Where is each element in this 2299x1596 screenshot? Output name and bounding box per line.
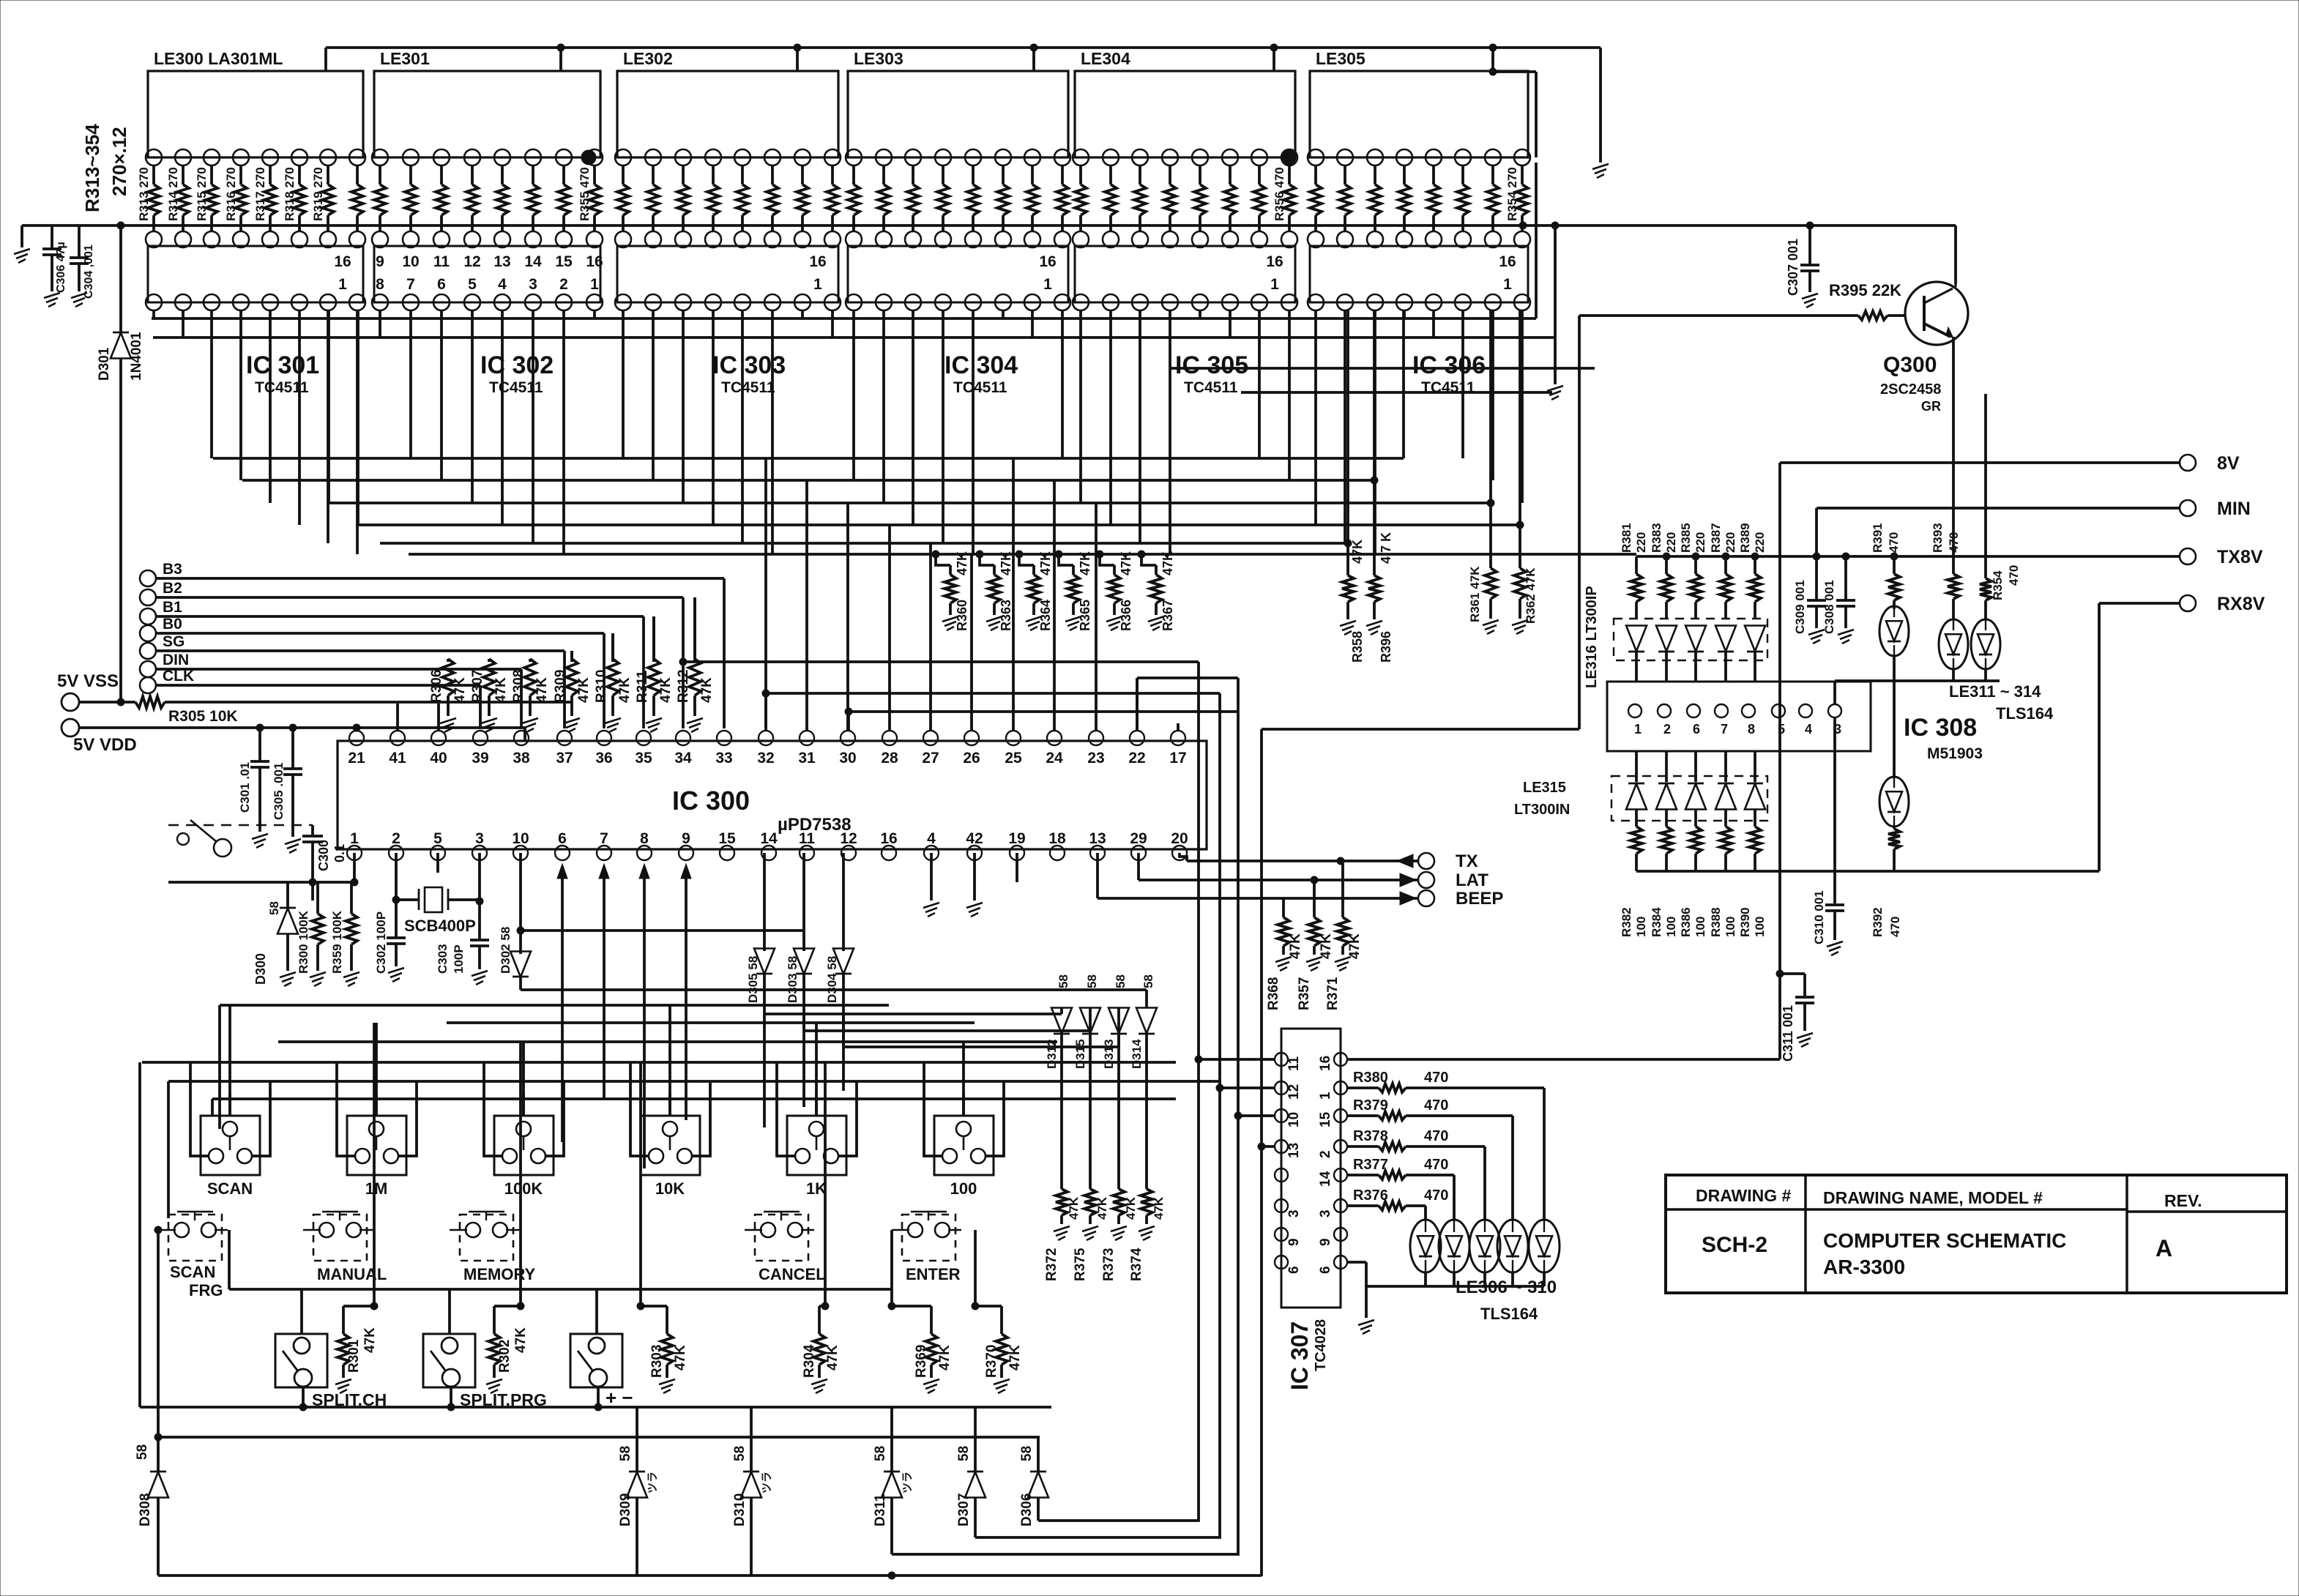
svg-text:28: 28 <box>881 750 898 767</box>
bottom pins IC301 <box>146 294 162 310</box>
svg-text:R367: R367 <box>1160 600 1175 631</box>
svg-text:IC 306: IC 306 <box>1412 351 1486 379</box>
LE315 diodes <box>1635 751 1638 782</box>
node LE305 feed <box>1491 48 1494 72</box>
capacitor C305 <box>289 724 297 731</box>
pin5 stub <box>436 853 439 873</box>
svg-text:2: 2 <box>559 276 568 293</box>
svg-text:47K: 47K <box>1347 933 1363 959</box>
resistor R array 2,1 <box>652 165 655 184</box>
svg-text:R301: R301 <box>346 1339 362 1373</box>
wires IC302 outputs <box>379 310 381 338</box>
svg-text:24: 24 <box>1046 750 1063 767</box>
svg-text:R373: R373 <box>1101 1248 1117 1281</box>
svg-text:47K: 47K <box>452 677 468 703</box>
svg-text:35: 35 <box>635 750 652 767</box>
svg-text:470: 470 <box>1424 1097 1448 1114</box>
wires IC306 outputs <box>1314 310 1317 525</box>
svg-text:C311 001: C311 001 <box>1781 1005 1795 1062</box>
LED display LE300 <box>148 71 363 157</box>
ground left edge <box>14 249 30 254</box>
svg-text:R377: R377 <box>1353 1157 1388 1173</box>
resistor R382 <box>1635 824 1638 827</box>
wire L4 <box>1260 729 1263 1576</box>
resistor R313 <box>152 165 155 184</box>
wire mesh row 0 <box>213 457 1404 460</box>
svg-text:1: 1 <box>1270 276 1279 293</box>
resistor R array 5,2 <box>1374 165 1376 184</box>
resistor R array 4,2 <box>1139 165 1141 184</box>
svg-text:R393: R393 <box>1931 523 1945 553</box>
svg-text:7: 7 <box>600 830 608 847</box>
wire ic307 pin6 <box>1347 1261 1366 1264</box>
diode D311 <box>890 1407 893 1472</box>
LED display LE304 <box>1075 71 1295 157</box>
switch + − <box>570 1334 622 1387</box>
svg-text:4: 4 <box>927 830 936 847</box>
svg-text:6: 6 <box>1318 1266 1333 1274</box>
svg-text:14: 14 <box>760 830 778 847</box>
wire mesh col b <box>357 310 359 525</box>
resistor R309 <box>570 651 573 662</box>
svg-text:SCAN: SCAN <box>170 1263 215 1281</box>
wire base line <box>1579 314 1858 317</box>
resistor R304 <box>824 1062 827 1306</box>
resistor R array 5,6 <box>1491 165 1494 184</box>
wire D302 row <box>521 929 802 932</box>
svg-text:10: 10 <box>512 830 529 847</box>
svg-text:12: 12 <box>463 253 480 270</box>
svg-text:47K: 47K <box>1124 1196 1138 1220</box>
svg-text:11: 11 <box>1286 1056 1302 1071</box>
wire arrow pin <box>561 873 564 1142</box>
svg-text:TC4511: TC4511 <box>721 379 775 396</box>
wires IC305 outputs <box>1079 310 1082 503</box>
wire row972 <box>849 710 1238 713</box>
resistor R366 <box>1096 551 1103 558</box>
svg-text:TX8V: TX8V <box>2217 547 2263 567</box>
resistor R array 4,6 <box>1258 165 1261 184</box>
title block dividers <box>1804 1175 1807 1293</box>
svg-text:2SC2458: 2SC2458 <box>1880 381 1941 398</box>
svg-text:DIN: DIN <box>163 652 189 668</box>
svg-text:4: 4 <box>498 276 507 293</box>
svg-text:D304 58: D304 58 <box>825 956 839 1003</box>
svg-text:36: 36 <box>595 750 612 767</box>
svg-text:D315: D315 <box>1073 1039 1087 1069</box>
resistor R364 <box>1016 551 1023 558</box>
IC U307 TC4028 body <box>1281 1029 1341 1308</box>
IC300 top pins <box>349 731 364 745</box>
svg-text:9: 9 <box>682 830 690 847</box>
diode D303 <box>802 853 805 951</box>
svg-text:TC4028: TC4028 <box>1313 1319 1329 1371</box>
wire base vert <box>1578 316 1581 729</box>
resistor R305 <box>135 696 165 708</box>
wire key matrix row 5 <box>212 1097 1176 1100</box>
svg-text:220: 220 <box>1724 532 1737 553</box>
svg-text:R388: R388 <box>1709 907 1723 937</box>
svg-text:25: 25 <box>1005 750 1022 767</box>
svg-text:IC 303: IC 303 <box>712 351 786 379</box>
svg-text:R316 270: R316 270 <box>224 167 238 221</box>
wire r394 feed <box>1984 394 1987 575</box>
svg-text:R363: R363 <box>999 600 1013 631</box>
wire top supply bus <box>326 46 1601 49</box>
svg-text:R391: R391 <box>1871 523 1885 553</box>
svg-text:47K: 47K <box>658 677 674 703</box>
svg-text:D310: D310 <box>732 1494 748 1526</box>
diode D301 <box>119 225 122 334</box>
switch CANCEL <box>755 1215 808 1261</box>
resistor R377 <box>1347 1174 1379 1177</box>
svg-text:COMPUTER SCHEMATIC: COMPUTER SCHEMATIC <box>1823 1229 2066 1252</box>
svg-text:16: 16 <box>809 253 826 270</box>
resistor R308 <box>529 659 532 662</box>
resistor R392 <box>1893 827 1896 829</box>
wire mesh bus B drop <box>1554 338 1557 384</box>
svg-text:58: 58 <box>267 901 281 915</box>
resistor R array 5,4 <box>1432 165 1435 184</box>
capacitor C304 <box>78 225 81 258</box>
diode D304 <box>842 853 845 951</box>
svg-text:R361 47K: R361 47K <box>1468 566 1482 622</box>
svg-text:21: 21 <box>348 750 365 767</box>
resistor R310 <box>611 633 614 662</box>
svg-text:R369: R369 <box>914 1345 929 1378</box>
resistor R378 <box>1347 1145 1379 1148</box>
svg-text:LAT: LAT <box>1456 870 1488 890</box>
svg-text:11: 11 <box>799 830 816 847</box>
svg-text:R302: R302 <box>497 1340 513 1373</box>
wire mesh row 4 <box>380 542 1348 545</box>
svg-text:11: 11 <box>433 253 450 270</box>
resistor R363 <box>976 551 983 558</box>
LED LE314 <box>1893 681 1896 778</box>
svg-text:470: 470 <box>2007 565 2021 586</box>
svg-text:100P: 100P <box>452 944 466 974</box>
svg-text:B1: B1 <box>163 599 182 616</box>
svg-text:CANCEL: CANCEL <box>759 1265 826 1283</box>
diode D302 <box>519 853 522 954</box>
IC box IC304 <box>848 246 1068 302</box>
svg-text:D305 58: D305 58 <box>746 956 760 1003</box>
svg-text:47K: 47K <box>825 1345 841 1371</box>
wire mesh col p3 <box>1373 310 1376 480</box>
resistor R array 3,5 <box>1002 165 1005 184</box>
svg-text:2: 2 <box>392 830 400 847</box>
resistor R317 <box>269 165 272 184</box>
svg-text:1N4001: 1N4001 <box>129 332 144 381</box>
node TX8V <box>2180 548 2196 564</box>
svg-text:A: A <box>2155 1235 2172 1261</box>
resistor R303 <box>639 1062 642 1306</box>
LED display LE302 <box>617 71 838 157</box>
resistor R array 4,0 <box>1079 165 1082 184</box>
svg-text:20: 20 <box>1171 830 1188 847</box>
svg-text:47K: 47K <box>699 677 715 703</box>
svg-text:+ −: + − <box>606 1387 633 1409</box>
svg-text:470: 470 <box>1424 1187 1448 1204</box>
resistor R362 <box>1519 525 1521 568</box>
node B1 <box>140 608 156 624</box>
bottom pins IC302 <box>372 294 388 310</box>
node 8V <box>2180 455 2196 471</box>
svg-text:470: 470 <box>1424 1070 1448 1086</box>
svg-text:R375: R375 <box>1073 1248 1088 1281</box>
diode D300 <box>286 882 289 908</box>
wire mesh row 3 <box>358 523 1520 526</box>
wire led cathodes <box>1424 1272 1427 1286</box>
capacitor C311 <box>1780 972 1805 975</box>
wire row996 <box>1262 728 1579 731</box>
svg-text:R395 22K: R395 22K <box>1829 281 1901 299</box>
switch 100 <box>934 1116 994 1175</box>
svg-text:R366: R366 <box>1119 600 1133 631</box>
svg-text:16: 16 <box>1039 253 1056 270</box>
svg-text:R358: R358 <box>1350 631 1365 663</box>
svg-text:220: 220 <box>1693 532 1707 553</box>
svg-text:26: 26 <box>963 750 980 767</box>
diode D308 <box>157 1437 160 1472</box>
diode D310 <box>750 1407 753 1472</box>
svg-text:34: 34 <box>674 750 692 767</box>
resistor R389 <box>1754 556 1756 574</box>
pins of LE300 <box>146 149 162 165</box>
wire mesh col p5 <box>1346 310 1349 543</box>
svg-text:10: 10 <box>402 253 419 270</box>
svg-text:5: 5 <box>1778 722 1785 737</box>
wire L3 <box>892 678 1238 1554</box>
stub pin19 <box>1016 853 1018 882</box>
wire arrow pin <box>685 873 688 1120</box>
svg-text:1M: 1M <box>365 1179 388 1198</box>
node RX8V <box>2180 595 2196 611</box>
svg-text:5V VSS: 5V VSS <box>57 671 119 691</box>
svg-text:4: 4 <box>1805 722 1812 737</box>
svg-text:LT300IN: LT300IN <box>1514 802 1570 818</box>
svg-text:R378: R378 <box>1353 1128 1388 1144</box>
svg-text:B0: B0 <box>163 616 182 633</box>
IC U300 uPD7538 body <box>338 741 1207 849</box>
LED LE311 <box>1879 606 1909 656</box>
IC300 bottom pins <box>347 846 362 860</box>
svg-text:MIN: MIN <box>2217 499 2251 519</box>
svg-text:R304: R304 <box>802 1344 817 1378</box>
IC box IC306 <box>1310 246 1528 302</box>
resistor R379 <box>1347 1114 1379 1117</box>
svg-text:IC 304: IC 304 <box>944 351 1018 379</box>
capacitor C308 <box>1842 553 1849 560</box>
svg-text:RX8V: RX8V <box>2217 594 2265 614</box>
svg-text:R357: R357 <box>1297 977 1312 1010</box>
svg-text:LE305: LE305 <box>1316 49 1365 68</box>
svg-text:D303 58: D303 58 <box>786 956 800 1003</box>
wire d-row3 <box>843 1045 1119 1048</box>
wire mesh bus A <box>152 317 1536 320</box>
svg-text:R365: R365 <box>1078 600 1092 631</box>
svg-text:2: 2 <box>1663 722 1671 737</box>
svg-text:58: 58 <box>1114 974 1128 988</box>
capacitor C310 <box>1833 717 1836 903</box>
svg-text:100: 100 <box>1634 917 1648 937</box>
svg-text:470: 470 <box>1888 917 1902 937</box>
switch MEMORY <box>460 1215 513 1261</box>
svg-text:R315 270: R315 270 <box>195 167 209 221</box>
wire mesh row r2 <box>1241 391 1552 394</box>
wire 8V vert <box>1778 463 1781 1059</box>
svg-text:47K: 47K <box>937 1345 953 1371</box>
wire d-row1 <box>764 1013 1062 1015</box>
svg-text:47K: 47K <box>1007 1345 1023 1371</box>
IC box IC303 <box>617 246 838 302</box>
resistor R306 <box>447 659 450 662</box>
svg-text:58: 58 <box>873 1446 888 1461</box>
svg-text:220: 220 <box>1753 532 1767 553</box>
wire key 100K up <box>522 1042 525 1116</box>
resistor R354 <box>1521 165 1524 184</box>
svg-text:10K: 10K <box>655 1179 685 1198</box>
capacitor C307 <box>1806 222 1814 229</box>
svg-text:C307 001: C307 001 <box>1786 239 1800 296</box>
resistor R array 1,4 <box>501 165 504 184</box>
svg-text:2: 2 <box>1318 1150 1333 1158</box>
resistor R array 2,5 <box>771 165 774 184</box>
resistor R384 <box>1665 824 1668 827</box>
resistor R array 3,1 <box>882 165 885 184</box>
transistor Q300 <box>1905 282 1968 345</box>
resistor R391 <box>1890 553 1898 560</box>
svg-text:ツラ: ツラ <box>761 1472 773 1494</box>
node CLK <box>140 677 156 693</box>
svg-text:100K: 100K <box>504 1179 543 1198</box>
svg-text:D301: D301 <box>97 347 112 381</box>
svg-text:470: 470 <box>1947 532 1961 553</box>
svg-text:C308 001: C308 001 <box>1822 580 1836 634</box>
resistor R302 <box>519 1042 522 1306</box>
svg-text:1: 1 <box>1503 276 1512 293</box>
svg-text:10: 10 <box>1286 1112 1302 1127</box>
svg-text:R313 270: R313 270 <box>137 167 151 221</box>
switch SPLIT.CH <box>275 1334 327 1387</box>
svg-text:47K: 47K <box>1319 933 1334 959</box>
svg-text:0.1: 0.1 <box>332 844 347 862</box>
wire push row bus <box>229 1288 892 1291</box>
wire key matrix row 1 <box>447 1021 975 1024</box>
svg-text:16: 16 <box>1318 1056 1333 1071</box>
svg-text:R380: R380 <box>1353 1070 1388 1086</box>
svg-text:22: 22 <box>1128 750 1145 767</box>
switch SCAN PRG <box>168 1215 222 1261</box>
svg-text:TLS164: TLS164 <box>1480 1305 1538 1323</box>
switch 100K <box>494 1116 554 1175</box>
resistor R array 1,1 <box>409 165 412 184</box>
resistor R396 <box>1373 480 1376 575</box>
svg-text:220: 220 <box>1664 532 1678 553</box>
wire cap bus <box>22 224 44 227</box>
svg-text:TC4511: TC4511 <box>1184 379 1238 396</box>
LED display LE301 <box>374 71 600 157</box>
svg-text:7: 7 <box>1721 722 1728 737</box>
svg-text:D302 58: D302 58 <box>499 927 513 974</box>
resistor R array 2,4 <box>741 165 744 184</box>
svg-text:R300 100K: R300 100K <box>297 910 310 974</box>
resistor R array 4,1 <box>1109 165 1112 184</box>
resistor R356 <box>1288 165 1291 184</box>
wire led row bus <box>1835 679 2000 682</box>
wire ic307 in <box>1238 1114 1275 1117</box>
svg-text:8V: 8V <box>2217 453 2240 474</box>
svg-text:FRG: FRG <box>189 1281 223 1299</box>
svg-text:6: 6 <box>558 830 567 847</box>
resistor R355 <box>593 165 596 184</box>
resistor R319 <box>327 165 329 184</box>
svg-text:C305 .001: C305 .001 <box>272 763 286 820</box>
LED block LE315 <box>1611 776 1767 821</box>
svg-text:R385: R385 <box>1679 523 1693 553</box>
resistor R360 <box>932 551 939 558</box>
switch SPLIT.PRG <box>423 1334 475 1387</box>
wire key matrix row 3 <box>142 1061 1176 1064</box>
svg-text:12: 12 <box>1286 1084 1302 1100</box>
svg-text:TC4511: TC4511 <box>953 379 1007 396</box>
svg-text:C301 .01: C301 .01 <box>238 762 252 813</box>
resistor R381 <box>1635 556 1638 574</box>
svg-text:47K: 47K <box>617 677 633 703</box>
svg-text:R371: R371 <box>1325 977 1341 1010</box>
wire key 10K up <box>668 1005 671 1116</box>
wire L2 <box>975 693 1220 1537</box>
svg-text:16: 16 <box>334 253 351 270</box>
wire mesh row 1 <box>242 479 1374 482</box>
svg-text:3: 3 <box>1318 1209 1333 1217</box>
node 5V VDD <box>62 719 79 737</box>
svg-text:R382: R382 <box>1620 907 1633 937</box>
svg-text:ツラ: ツラ <box>647 1472 659 1494</box>
pins of LE302 <box>615 149 631 165</box>
svg-text:42: 42 <box>966 830 983 847</box>
resistor R array 2,6 <box>801 165 804 184</box>
svg-text:R319 270: R319 270 <box>311 167 325 221</box>
wire mesh row r1 <box>1169 367 1595 370</box>
svg-text:R374: R374 <box>1129 1248 1144 1281</box>
svg-text:R376: R376 <box>1353 1187 1388 1204</box>
svg-text:1: 1 <box>1318 1092 1333 1100</box>
resistor R array 4,4 <box>1199 165 1201 184</box>
wire bus to Q300 collector <box>1954 225 1957 284</box>
node B0 <box>140 625 156 641</box>
svg-text:ENTER: ENTER <box>906 1265 961 1283</box>
resistor R array 2,7 <box>831 165 834 184</box>
resistor R array 3,0 <box>852 165 855 184</box>
svg-text:58: 58 <box>618 1446 633 1461</box>
svg-text:D313: D313 <box>1102 1039 1116 1069</box>
resistor R array 5,1 <box>1344 165 1346 184</box>
svg-text:15: 15 <box>555 253 573 270</box>
svg-text:R356 470: R356 470 <box>1273 167 1286 221</box>
svg-text:13: 13 <box>1286 1143 1302 1158</box>
svg-text:30: 30 <box>839 750 856 767</box>
svg-text:TLS164: TLS164 <box>1996 704 2054 723</box>
pins of LE304 <box>1073 149 1089 165</box>
node B3 <box>140 570 156 586</box>
svg-text:R389: R389 <box>1738 523 1752 553</box>
ground pin4 <box>930 853 933 900</box>
resistor R array 3,2 <box>912 165 914 184</box>
resistor R array 1,0 <box>379 165 381 184</box>
IC308 pins <box>1628 704 1642 717</box>
svg-text:R368: R368 <box>1266 977 1281 1010</box>
